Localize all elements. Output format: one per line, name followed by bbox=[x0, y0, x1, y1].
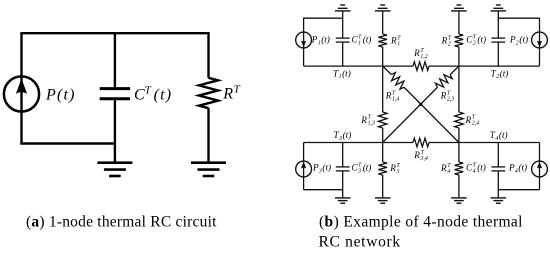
svg-text:(t): (t) bbox=[154, 87, 173, 104]
current source P(t) bbox=[4, 76, 39, 111]
svg-text:R: R bbox=[440, 163, 447, 173]
ground below resistor bbox=[191, 163, 226, 176]
label R23T bbox=[440, 91, 455, 103]
svg-text:(t): (t) bbox=[500, 68, 509, 78]
resistor R13 bbox=[378, 112, 387, 128]
wire C3 upper lead bbox=[342, 143, 344, 167]
ground below resistor R4 bbox=[451, 198, 467, 203]
caption b line 2 bbox=[319, 233, 401, 250]
svg-text:(t): (t) bbox=[518, 162, 527, 172]
svg-text:4: 4 bbox=[447, 168, 450, 175]
svg-text:3: 3 bbox=[357, 168, 361, 174]
current source P4 bbox=[532, 161, 548, 177]
label R24T bbox=[465, 115, 480, 127]
current source P3 bbox=[296, 161, 312, 177]
wire C2 lower lead bbox=[497, 42, 499, 66]
wire bottom bus left bbox=[304, 142, 413, 144]
wire R1 upper lead bbox=[382, 11, 384, 34]
resistor R1 bbox=[378, 34, 387, 47]
svg-text:R: R bbox=[389, 163, 396, 173]
wire resistor bottom lead bbox=[207, 108, 209, 163]
wire R2 lower lead bbox=[458, 47, 460, 66]
wire R2 upper lead bbox=[458, 11, 460, 34]
svg-text:R: R bbox=[465, 115, 472, 125]
ground above capacitor C1 bbox=[335, 5, 351, 11]
ground below capacitor C4 bbox=[491, 198, 507, 203]
wire P4 upper lead bbox=[539, 143, 541, 162]
wire diagonal 1-4 upper bbox=[383, 66, 392, 74]
wire top node1 bbox=[304, 17, 343, 19]
label RT bbox=[222, 84, 240, 103]
svg-text:(t): (t) bbox=[343, 130, 352, 140]
wire left column upper bbox=[382, 66, 384, 112]
ground below capacitor C3 bbox=[335, 198, 351, 203]
svg-text:R: R bbox=[440, 91, 447, 101]
wire capacitor top lead bbox=[114, 32, 116, 87]
wire C2 upper lead bbox=[497, 11, 499, 38]
svg-text:(t): (t) bbox=[477, 35, 486, 45]
svg-text:R: R bbox=[222, 85, 234, 102]
wire P4 lower lead bbox=[539, 177, 541, 190]
svg-text:3: 3 bbox=[396, 169, 400, 175]
label CT(t) bbox=[134, 84, 172, 103]
svg-text:R: R bbox=[360, 115, 367, 125]
wire C3 lower lead bbox=[342, 171, 344, 198]
label C4T(t) bbox=[466, 162, 486, 174]
wire diagonal 1-4 lower bbox=[404, 87, 459, 142]
svg-text:R: R bbox=[385, 91, 392, 101]
svg-text:T: T bbox=[145, 84, 152, 96]
svg-text:4: 4 bbox=[473, 167, 476, 174]
svg-text:R: R bbox=[390, 36, 397, 46]
label T4(t) bbox=[490, 130, 508, 142]
capacitor CT(t) bbox=[100, 89, 130, 99]
caption b line 1 bbox=[319, 213, 523, 230]
wire bottom bus right bbox=[429, 142, 540, 144]
svg-text:2: 2 bbox=[473, 41, 476, 47]
svg-text:(b) Example of 4-node thermal: (b) Example of 4-node thermal bbox=[319, 213, 523, 230]
svg-text:R: R bbox=[413, 48, 420, 58]
wire R1 lower lead bbox=[382, 47, 384, 66]
svg-text:1,3: 1,3 bbox=[368, 121, 375, 127]
wire diagonal 2-3 lower bbox=[383, 87, 438, 142]
svg-text:(t): (t) bbox=[499, 130, 508, 140]
svg-text:RC network: RC network bbox=[319, 233, 401, 250]
capacitor C4 bbox=[491, 167, 505, 171]
resistor R12 bbox=[413, 62, 429, 71]
resistor R23 bbox=[434, 71, 453, 90]
capacitor C1 bbox=[336, 38, 350, 42]
svg-text:1,2: 1,2 bbox=[420, 54, 427, 60]
wire C1 upper lead bbox=[342, 11, 344, 38]
svg-text:(t): (t) bbox=[477, 162, 486, 172]
ground above capacitor C2 bbox=[491, 5, 507, 11]
svg-text:3,4: 3,4 bbox=[420, 155, 428, 162]
ground above resistor R1 bbox=[375, 5, 391, 11]
wire diagonal 2-3 upper bbox=[450, 66, 459, 74]
svg-text:(t): (t) bbox=[321, 35, 330, 45]
label C3T(t) bbox=[352, 162, 372, 174]
svg-text:P(t): P(t) bbox=[45, 86, 76, 103]
label R12T bbox=[413, 48, 428, 60]
svg-text:2,3: 2,3 bbox=[447, 97, 454, 103]
wire C4 upper lead bbox=[497, 143, 499, 167]
svg-text:(t): (t) bbox=[363, 162, 372, 172]
wire left branch lower bbox=[20, 112, 22, 144]
wire left branch upper bbox=[20, 32, 22, 76]
wire P1 lower lead bbox=[303, 48, 305, 66]
svg-text:3: 3 bbox=[338, 136, 342, 142]
svg-text:(t): (t) bbox=[322, 162, 331, 172]
wire R3 upper lead bbox=[382, 143, 384, 163]
wire top bus panel a bbox=[22, 32, 209, 34]
wire P1 upper lead bbox=[303, 18, 305, 33]
label P(t) bbox=[45, 86, 76, 103]
wire C4 lower lead bbox=[497, 171, 499, 198]
resistor R34 bbox=[413, 138, 429, 147]
resistor R24 bbox=[455, 112, 464, 128]
junction node center bbox=[419, 103, 422, 106]
wire top node2 bbox=[498, 17, 539, 19]
resistor R4 bbox=[455, 162, 464, 175]
wire bottom bbox=[20, 142, 115, 144]
current source P2 bbox=[532, 32, 548, 48]
svg-text:(a) 1-node thermal RC circuit: (a) 1-node thermal RC circuit bbox=[26, 213, 217, 230]
label P2(t) bbox=[509, 35, 528, 47]
ground below resistor R3 bbox=[375, 198, 391, 203]
label R13T bbox=[360, 115, 375, 127]
svg-text:1: 1 bbox=[397, 42, 400, 48]
wire right column lower bbox=[458, 128, 460, 143]
wire P3 upper lead bbox=[303, 143, 305, 162]
label P1(t) bbox=[311, 35, 330, 47]
resistor R2 bbox=[455, 34, 464, 47]
svg-text:T: T bbox=[234, 84, 241, 96]
wire top bus left bbox=[304, 65, 413, 67]
svg-text:(t): (t) bbox=[342, 68, 351, 78]
caption a bbox=[26, 213, 217, 230]
label P4(t) bbox=[508, 162, 527, 174]
wire resistor top lead bbox=[207, 32, 209, 78]
svg-text:3: 3 bbox=[318, 168, 322, 174]
label P3(t) bbox=[312, 162, 331, 174]
current source P1 bbox=[296, 32, 312, 48]
wire left column lower bbox=[382, 128, 384, 143]
wire C1 lower lead bbox=[342, 42, 344, 66]
wire P2 lower lead bbox=[539, 48, 541, 66]
wire right column upper bbox=[458, 66, 460, 112]
svg-text:R: R bbox=[413, 150, 420, 160]
label C2T(t) bbox=[466, 35, 486, 47]
resistor R3 bbox=[378, 162, 387, 175]
wire R4 lower lead bbox=[458, 175, 460, 198]
label R3T bbox=[389, 163, 400, 175]
label R4T bbox=[440, 163, 451, 175]
label T2(t) bbox=[491, 68, 509, 80]
wire R4 upper lead bbox=[458, 143, 460, 163]
label R2T bbox=[441, 36, 452, 48]
wire R3 lower lead bbox=[382, 175, 384, 198]
wire capacitor bottom lead bbox=[114, 100, 116, 163]
capacitor C3 bbox=[336, 167, 350, 171]
resistor R14 bbox=[388, 71, 407, 90]
label R34T bbox=[413, 150, 428, 162]
wire bottom node4 bbox=[498, 189, 539, 191]
wire bottom node3 bbox=[304, 189, 343, 191]
svg-text:2: 2 bbox=[448, 42, 451, 48]
svg-text:1: 1 bbox=[358, 41, 361, 47]
svg-text:(t): (t) bbox=[363, 35, 372, 45]
label C1T(t) bbox=[352, 35, 372, 47]
wire top bus right bbox=[429, 65, 540, 67]
svg-text:(t): (t) bbox=[519, 35, 528, 45]
ground below capacitor bbox=[97, 163, 132, 176]
resistor RT bbox=[199, 78, 218, 108]
wire P2 upper lead bbox=[539, 18, 541, 33]
wire P3 lower lead bbox=[303, 177, 305, 190]
svg-text:1,4: 1,4 bbox=[392, 96, 399, 103]
svg-text:R: R bbox=[441, 36, 448, 46]
ground above resistor R2 bbox=[451, 5, 467, 11]
svg-text:2,4: 2,4 bbox=[472, 120, 479, 127]
label R14T bbox=[385, 91, 400, 103]
label T1(t) bbox=[333, 68, 351, 80]
label T3(t) bbox=[334, 130, 352, 142]
label R1T bbox=[390, 36, 401, 48]
capacitor C2 bbox=[491, 38, 505, 42]
